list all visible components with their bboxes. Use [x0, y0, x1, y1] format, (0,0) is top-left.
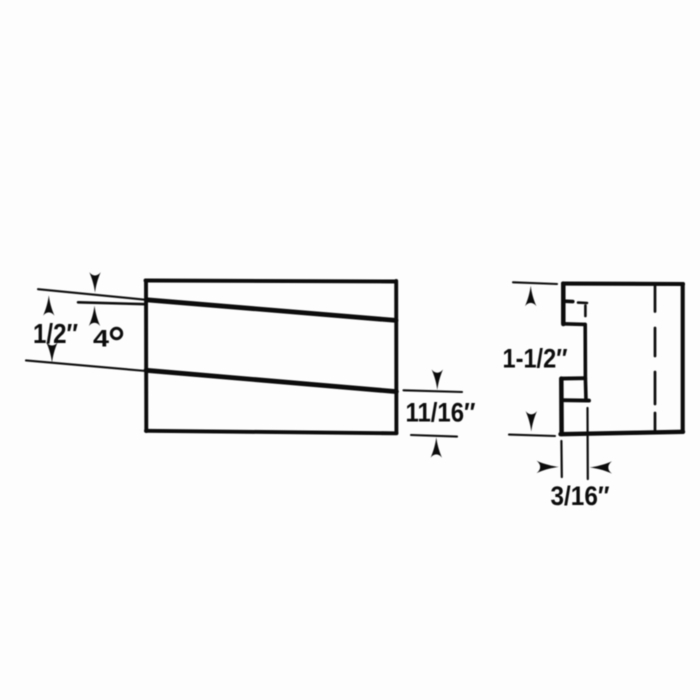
arrow: down onto upper taper extension (4 deg, upper)	[89, 272, 100, 293]
svg-text:1-1/2″: 1-1/2″	[503, 344, 568, 374]
hidden dash horizontal near top lip	[578, 301, 587, 304]
arrow: 3/16 right (points left)	[590, 461, 613, 473]
extension of upper taper line to the left (thin)	[38, 289, 146, 300]
3/16 left extension line (vertical)	[560, 441, 563, 477]
small lip tick on upper flange	[564, 299, 573, 303]
svg-text:1/2″: 1/2″	[33, 318, 78, 349]
hidden dash vertical near top lip	[584, 306, 587, 317]
hidden center line (dashed vertical)	[654, 286, 657, 431]
svg-text:4: 4	[93, 326, 110, 353]
11/16 lower extension line at right	[411, 435, 457, 437]
arrow: 11/16 bottom (points up)	[431, 437, 442, 458]
arrow: 11/16 top (points down)	[432, 369, 443, 390]
bottom edge	[146, 431, 396, 434]
arrow: 1/2 inch top (points up)	[43, 295, 54, 316]
degree circle of 4deg	[111, 328, 121, 338]
horizontal 4-degree reference line (thin)	[78, 302, 146, 304]
extension of lower taper line to the left (thin)	[26, 360, 146, 371]
right edge	[394, 281, 398, 433]
internal line: bottom of lower tab	[562, 398, 589, 402]
svg-text:3/16″: 3/16″	[551, 481, 610, 511]
11/16 upper extension line at right	[404, 390, 463, 392]
profile top edge	[563, 282, 683, 286]
top edge	[146, 281, 397, 282]
left view: lower taper line (thick)	[146, 370, 396, 391]
arrow: 1/2 inch bottom (points down)	[46, 342, 57, 363]
3/16 right extension line (vertical)	[586, 408, 588, 479]
svg-text:11/16″: 11/16″	[406, 398, 476, 428]
lower leg left edge	[559, 379, 564, 434]
profile left side: upper flange left edge	[561, 284, 566, 324]
channel inner wall (vertical)	[583, 324, 587, 400]
1-1/2 bottom extension line	[509, 435, 555, 436]
left view: gib outline rectangle	[146, 281, 397, 434]
arrow: 3/16 left (points right)	[537, 461, 560, 473]
left edge	[144, 281, 148, 432]
1-1/2 top extension line	[513, 282, 557, 284]
arrow: up under 4-deg reference line	[89, 306, 100, 327]
step left at bottom of channel	[561, 376, 585, 380]
profile right edge	[681, 284, 685, 432]
left view: upper taper line (thick)	[147, 300, 397, 321]
step right at bottom of upper flange	[563, 322, 585, 326]
arrow: 1-1/2 bottom (points down)	[526, 411, 537, 432]
profile bottom edge	[561, 432, 684, 434]
arrow: 1-1/2 top (points up)	[525, 286, 536, 307]
